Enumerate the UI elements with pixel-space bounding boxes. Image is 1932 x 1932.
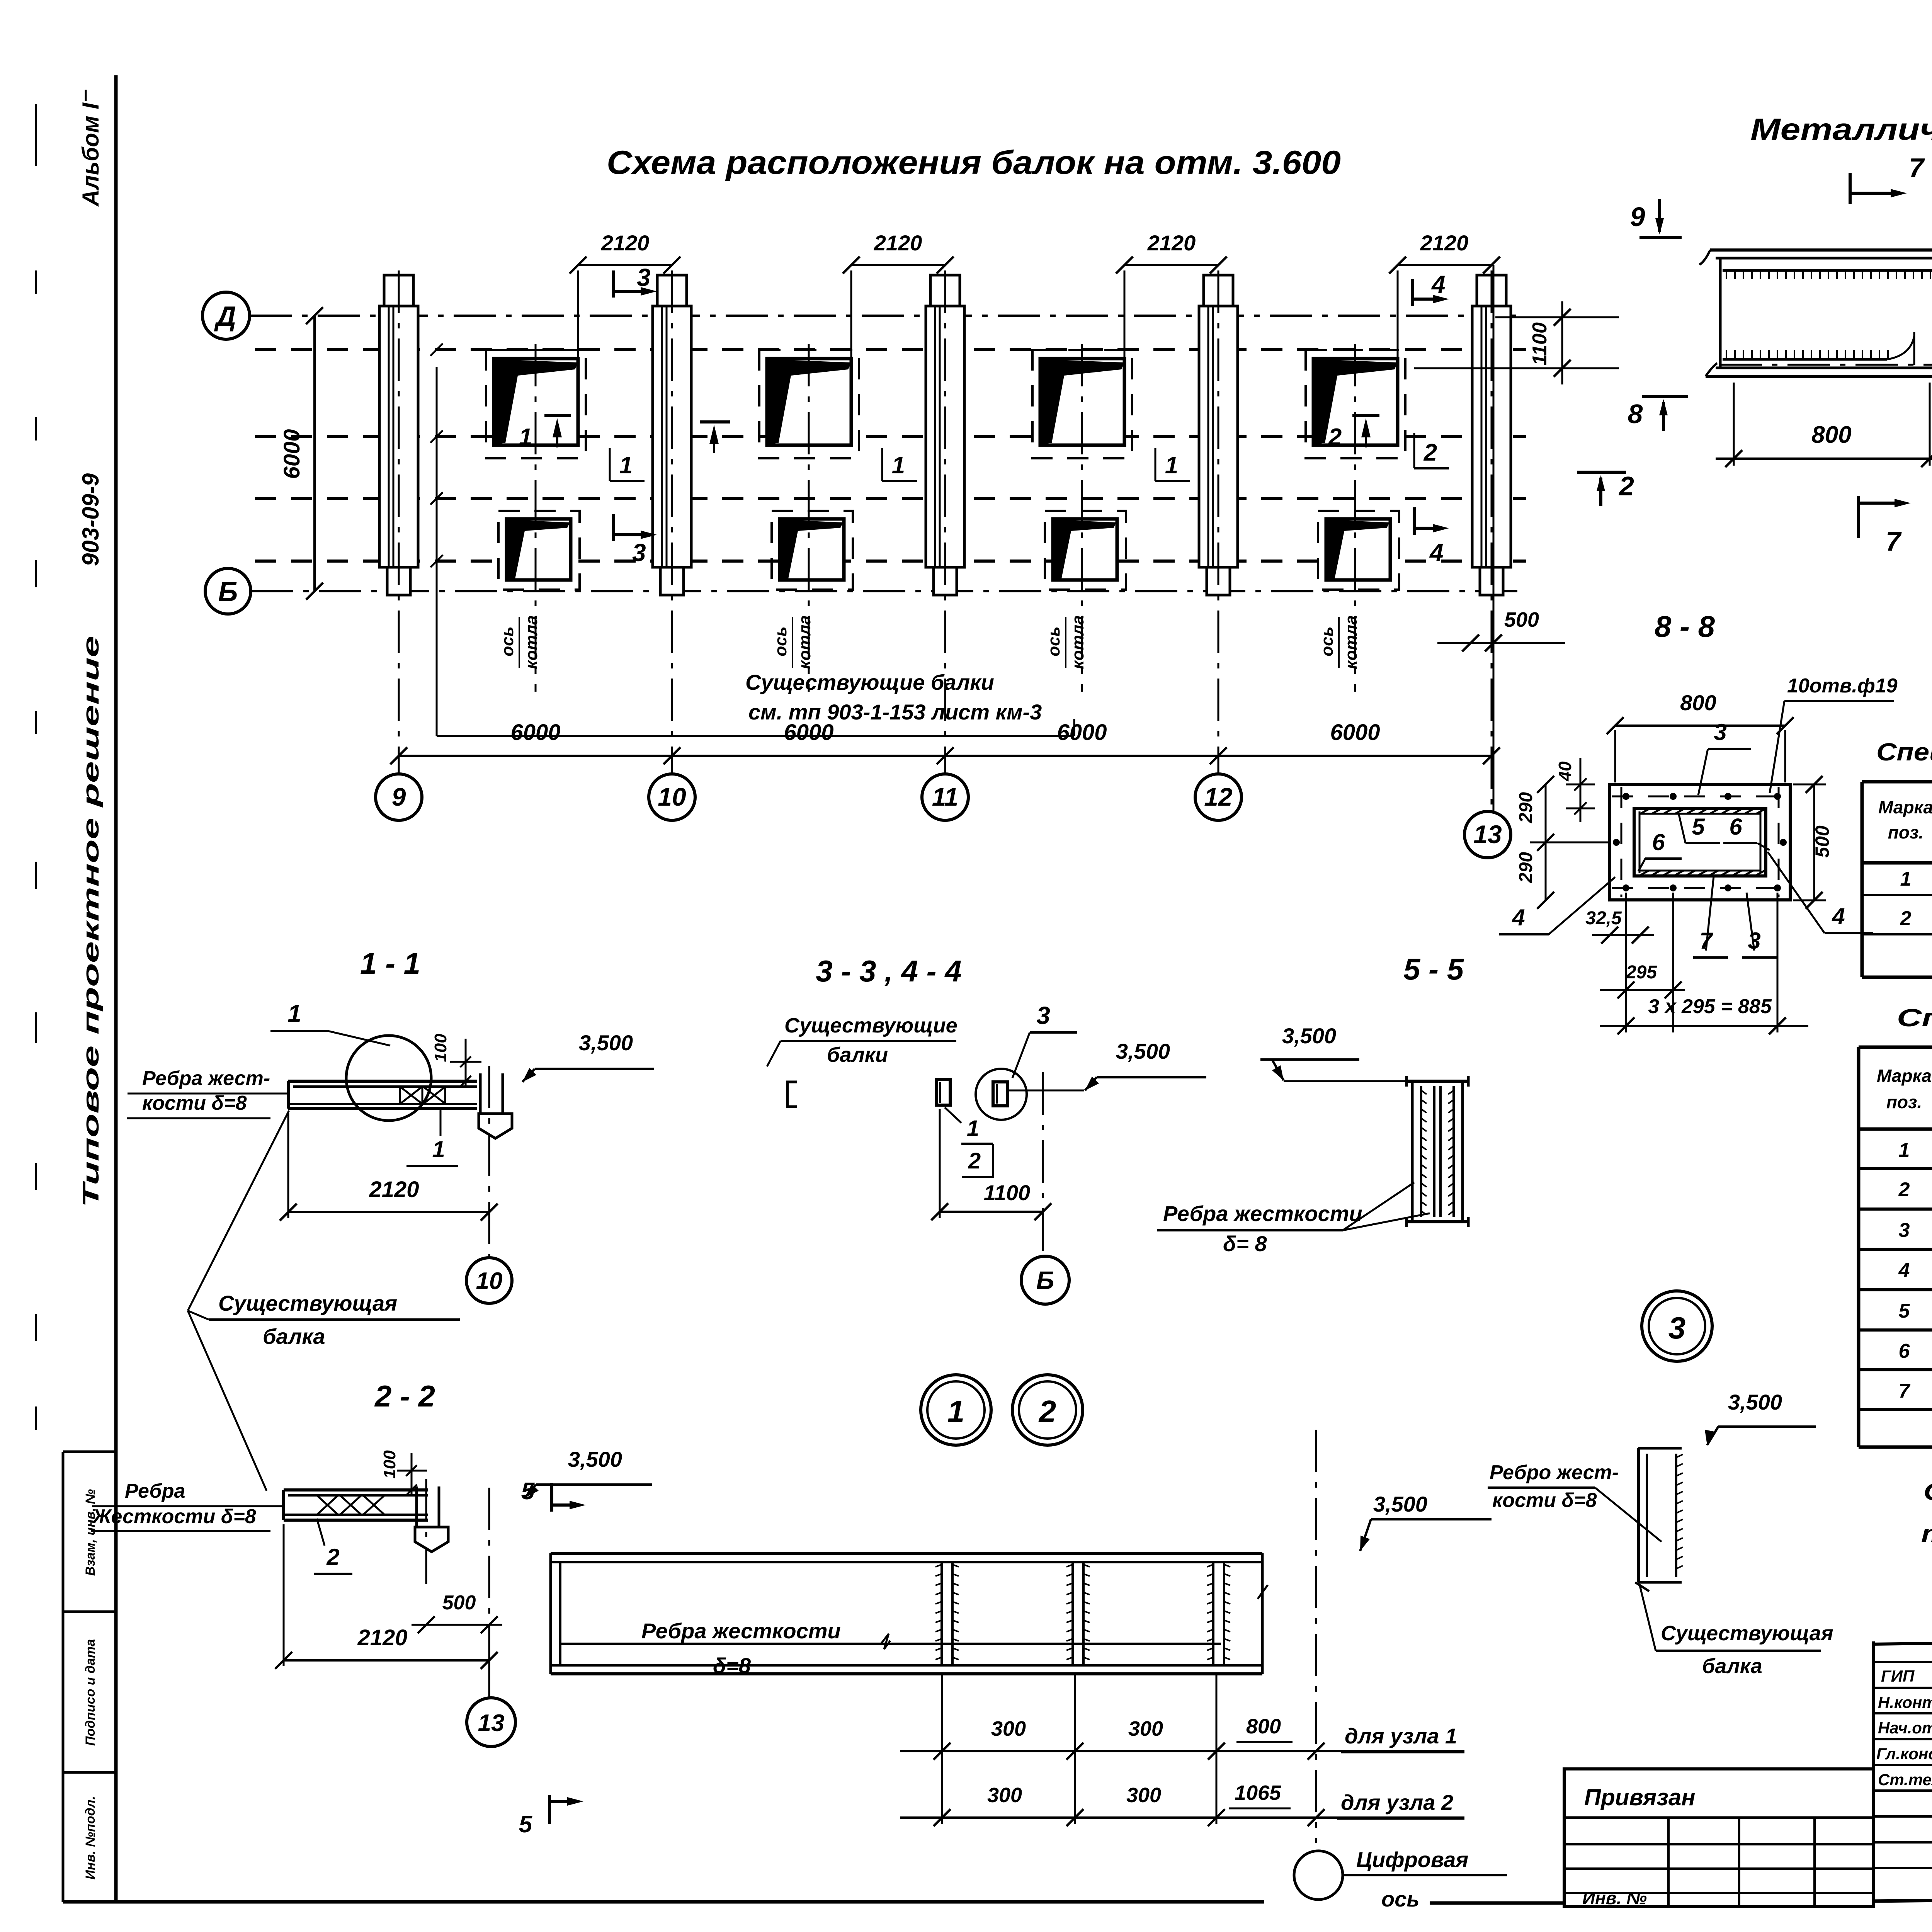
8-8 bolt holes bbox=[1622, 793, 1629, 800]
svg-text:1 - 1: 1 - 1 bbox=[360, 946, 420, 980]
svg-text:Взам, инв. №: Взам, инв. № bbox=[83, 1489, 98, 1576]
svg-text:3: 3 bbox=[637, 264, 651, 291]
axis line B bbox=[251, 590, 1526, 592]
svg-text:Марка: Марка bbox=[1878, 797, 1932, 817]
1-1 detail circle bbox=[346, 1036, 431, 1121]
svg-text:2: 2 bbox=[1038, 1394, 1056, 1429]
svg-text:1: 1 bbox=[519, 424, 532, 451]
rib channel piece bbox=[1638, 1447, 1682, 1450]
longitudinal dashed beam lines bbox=[255, 348, 1526, 351]
svg-text:300: 300 bbox=[1128, 1717, 1163, 1740]
svg-text:Типовое проектное решение: Типовое проектное решение bbox=[78, 636, 104, 1207]
svg-text:1: 1 bbox=[892, 452, 905, 479]
svg-text:3: 3 bbox=[1036, 1002, 1050, 1029]
bay 2 lower opening bbox=[780, 519, 844, 580]
bay 4 upper opening black wedge bbox=[1314, 359, 1398, 444]
8-8 inner frame bbox=[1634, 808, 1766, 876]
svg-text:300: 300 bbox=[987, 1784, 1022, 1807]
svg-text:типа Э-42 по ГОСТ 9467-75: типа Э-42 по ГОСТ 9467-75 bbox=[1921, 1520, 1932, 1547]
section mark 4 lower bbox=[1413, 507, 1416, 535]
svg-text:3,500: 3,500 bbox=[568, 1447, 622, 1471]
svg-text:балка: балка bbox=[1702, 1655, 1762, 1678]
svg-text:500: 500 bbox=[442, 1592, 476, 1614]
svg-text:300: 300 bbox=[1126, 1784, 1161, 1807]
bay 1 upper opening dashed outline bbox=[486, 350, 586, 458]
section mark 3 upper bbox=[612, 270, 615, 298]
metal box hatch ticks top bbox=[1726, 270, 1727, 279]
svg-text:Спецификация к схеме распол: Спецификация к схеме расположения балок … bbox=[1876, 738, 1932, 766]
vertical dimension 6000 between axes bbox=[313, 316, 316, 591]
column bubble 12 bbox=[1195, 774, 1242, 820]
bay 3 upper opening black wedge bbox=[1041, 359, 1124, 444]
svg-text:6: 6 bbox=[1652, 829, 1665, 855]
bay 4 lower opening dashed outline bbox=[1318, 511, 1399, 590]
sheet frame left inner border bbox=[114, 75, 118, 1902]
bay 2 upper opening dashed outline bbox=[759, 350, 859, 458]
svg-text:2120: 2120 bbox=[601, 231, 650, 255]
node beam right axis line bbox=[1315, 1430, 1317, 1843]
axis bubble 10 under 1-1 bbox=[466, 1258, 512, 1303]
bay 1 upper opening bbox=[494, 359, 578, 445]
beam mark T symbol bay4 bbox=[1352, 414, 1379, 417]
section mark 7 top bbox=[1849, 173, 1852, 204]
svg-text:3,500: 3,500 bbox=[1282, 1024, 1336, 1048]
3-3 circled channel bbox=[976, 1069, 1027, 1120]
svg-text:Б: Б bbox=[218, 577, 238, 607]
column 12 axis line bbox=[1218, 270, 1219, 774]
svg-text:Спецификация к металлическо: Спецификация к металлическому коробу bbox=[1897, 1004, 1932, 1032]
svg-text:Альбом I: Альбом I bbox=[78, 102, 104, 207]
metal box hatch ticks bottom bbox=[1726, 350, 1727, 359]
axis line D bbox=[250, 315, 1526, 317]
svg-text:1: 1 bbox=[1165, 452, 1178, 479]
section mark 2 left bbox=[1577, 471, 1626, 474]
svg-text:295: 295 bbox=[1626, 962, 1657, 983]
axis bubble 13 under 2-2 bbox=[467, 1698, 515, 1747]
svg-text:1: 1 bbox=[432, 1136, 445, 1162]
svg-text:кости δ=8: кости δ=8 bbox=[142, 1092, 247, 1114]
svg-text:Ребра жесткости: Ребра жесткости bbox=[641, 1619, 841, 1643]
svg-text:4: 4 bbox=[1429, 539, 1444, 566]
svg-text:6000: 6000 bbox=[510, 720, 560, 745]
column bubble 9 bbox=[376, 774, 422, 820]
section mark 7 bottom bbox=[1857, 496, 1860, 538]
spec table 1 grid bbox=[1861, 782, 1864, 977]
svg-text:котла: котла bbox=[522, 615, 541, 669]
svg-text:3 x 295 = 885: 3 x 295 = 885 bbox=[1648, 995, 1772, 1018]
3-3 axis line bbox=[1042, 1072, 1044, 1256]
svg-text:Гл.конст.: Гл.конст. bbox=[1876, 1745, 1932, 1763]
svg-text:2120: 2120 bbox=[357, 1625, 407, 1650]
svg-text:кости δ=8: кости δ=8 bbox=[1492, 1489, 1597, 1512]
svg-text:Ст.техн.: Ст.техн. bbox=[1878, 1770, 1932, 1789]
spec table 2 grid bbox=[1857, 1047, 1861, 1447]
sheet frame bottom border bbox=[63, 1900, 1264, 1904]
svg-text:Инв. №: Инв. № bbox=[1582, 1888, 1647, 1908]
svg-text:Жесткости δ=8: Жесткости δ=8 bbox=[92, 1505, 256, 1528]
bottom dimension row 6000 x4 bbox=[399, 755, 1492, 757]
svg-text:5: 5 bbox=[519, 1811, 533, 1838]
svg-text:9: 9 bbox=[1630, 202, 1645, 232]
bay 2 lower opening black wedge bbox=[781, 520, 843, 580]
svg-text:ГИП: ГИП bbox=[1881, 1667, 1915, 1685]
svg-text:котла: котла bbox=[795, 615, 814, 669]
3-3 dimension 1100 bbox=[940, 1211, 1043, 1213]
node beam break mark right bbox=[1258, 1585, 1268, 1599]
svg-text:Ребра: Ребра bbox=[125, 1480, 185, 1502]
svg-text:2: 2 bbox=[1898, 1179, 1910, 1201]
1-1 dimension 2120 bbox=[288, 1211, 489, 1213]
svg-text:ось: ось bbox=[771, 626, 790, 656]
bay 3 dimension 2120 bbox=[1124, 264, 1218, 266]
bay 3 lower opening bbox=[1053, 519, 1117, 580]
title block bottom line bbox=[1873, 1893, 1932, 1901]
svg-text:6000: 6000 bbox=[1057, 720, 1107, 745]
svg-text:ось: ось bbox=[1381, 1887, 1420, 1911]
metal box bottom flange bbox=[1723, 358, 1887, 361]
svg-text:10: 10 bbox=[658, 782, 686, 811]
svg-text:Подписо и дата: Подписо и дата bbox=[83, 1639, 98, 1746]
svg-text:2120: 2120 bbox=[369, 1177, 419, 1202]
bay 2 lower opening dashed outline bbox=[772, 511, 853, 590]
svg-text:Существующие: Существующие bbox=[784, 1014, 957, 1037]
svg-text:котла: котла bbox=[1342, 615, 1361, 669]
svg-text:Цифровая: Цифровая bbox=[1356, 1847, 1468, 1872]
svg-text:3,500: 3,500 bbox=[579, 1031, 633, 1055]
svg-text:6: 6 bbox=[1729, 814, 1742, 840]
svg-text:32,5: 32,5 bbox=[1585, 908, 1622, 929]
svg-text:Нач.отд.: Нач.отд. bbox=[1878, 1719, 1932, 1737]
svg-text:4: 4 bbox=[1431, 270, 1446, 298]
svg-text:3,500: 3,500 bbox=[1373, 1492, 1427, 1516]
svg-text:6000: 6000 bbox=[784, 720, 833, 745]
column 10 existing beam body bbox=[657, 275, 687, 306]
svg-text:Существующая: Существующая bbox=[1661, 1622, 1833, 1645]
svg-text:4: 4 bbox=[1512, 905, 1525, 930]
title block top boundary bbox=[1873, 1634, 1932, 1644]
bay 1 lower opening bbox=[507, 519, 571, 580]
svg-text:1: 1 bbox=[1900, 868, 1912, 890]
svg-text:13: 13 bbox=[478, 1710, 505, 1736]
section mark 8 bottom-left bbox=[1642, 395, 1688, 398]
bay 1 upper opening black wedge bbox=[495, 359, 578, 444]
1-1 existing column bbox=[479, 1073, 482, 1114]
svg-text:ось: ось bbox=[498, 626, 517, 656]
section mark 3 lower bbox=[612, 514, 615, 541]
svg-text:7: 7 bbox=[1886, 526, 1902, 556]
column bubble 11 bbox=[922, 774, 968, 820]
svg-text:100: 100 bbox=[380, 1450, 399, 1479]
1-1 beam stiffener crosses bbox=[400, 1087, 422, 1104]
svg-text:2: 2 bbox=[968, 1148, 981, 1173]
svg-text:100: 100 bbox=[431, 1034, 450, 1062]
bay 1 lower opening black wedge bbox=[507, 520, 570, 580]
svg-text:ось: ось bbox=[1318, 626, 1337, 656]
axis bubble B under 3-3 bbox=[1021, 1256, 1069, 1304]
svg-text:5: 5 bbox=[1899, 1300, 1910, 1322]
2-2 column axis line bbox=[425, 1479, 427, 1584]
svg-text:поз.: поз. bbox=[1888, 822, 1923, 842]
svg-text:290: 290 bbox=[1516, 852, 1536, 883]
2-2 existing column bbox=[415, 1486, 418, 1527]
svg-text:Сварку производить элект: Сварку производить электродами bbox=[1923, 1479, 1932, 1505]
metal box side webs bbox=[1719, 258, 1722, 367]
detail bubble 2 bbox=[1012, 1375, 1083, 1445]
svg-text:2120: 2120 bbox=[1420, 231, 1469, 255]
svg-text:2: 2 bbox=[326, 1544, 339, 1570]
section mark 4 upper bbox=[1411, 279, 1414, 306]
axis bubble B bbox=[205, 568, 251, 614]
svg-text:ось: ось bbox=[1044, 626, 1063, 656]
bay 4 upper opening bbox=[1313, 359, 1398, 445]
digital axis circle bbox=[1294, 1851, 1343, 1900]
metal box dimension 800 bbox=[1716, 457, 1932, 460]
svg-text:4: 4 bbox=[1898, 1259, 1910, 1282]
svg-text:балки: балки bbox=[827, 1043, 888, 1066]
svg-text:3: 3 bbox=[1899, 1219, 1910, 1242]
svg-text:13: 13 bbox=[1473, 820, 1502, 849]
bay 1 dimension 2120 bbox=[578, 264, 672, 266]
node beam bottom flange bbox=[551, 1664, 1262, 1667]
svg-text:поз.: поз. bbox=[1886, 1092, 1922, 1112]
svg-text:Существующие балки: Существующие балки bbox=[745, 670, 994, 694]
bay 4 lower opening bbox=[1326, 519, 1390, 580]
svg-text:6: 6 bbox=[1899, 1340, 1910, 1362]
svg-text:4: 4 bbox=[1832, 903, 1845, 929]
column 12 existing beam body bbox=[1204, 275, 1233, 306]
3-3 small channel bracket symbol bbox=[787, 1082, 797, 1107]
svg-text:3: 3 bbox=[632, 539, 646, 566]
svg-text:7: 7 bbox=[1909, 153, 1925, 183]
svg-text:6000: 6000 bbox=[1330, 720, 1380, 745]
svg-text:Ребра жесткости: Ребра жесткости bbox=[1163, 1201, 1362, 1226]
8-8 outer frame bbox=[1610, 784, 1790, 900]
svg-text:балка: балка bbox=[263, 1324, 325, 1349]
bay 3 lower opening black wedge bbox=[1054, 520, 1116, 580]
detail bubble 3 bbox=[1642, 1291, 1712, 1361]
detail bubble 1 bbox=[921, 1375, 991, 1445]
sheet left outer edge marks bbox=[35, 104, 37, 166]
column 10 axis line bbox=[671, 270, 673, 774]
2-2 dimension 2120 bbox=[284, 1659, 489, 1662]
left stamp column table bbox=[62, 1452, 65, 1902]
svg-text:10: 10 bbox=[476, 1268, 503, 1294]
node dim row 2 bbox=[900, 1816, 1464, 1819]
svg-text:3,500: 3,500 bbox=[1728, 1390, 1782, 1414]
svg-text:2120: 2120 bbox=[1147, 231, 1196, 255]
svg-text:800: 800 bbox=[1680, 690, 1716, 715]
svg-text:8: 8 bbox=[1628, 399, 1643, 429]
2-2 beam channel bbox=[284, 1488, 428, 1492]
svg-text:1: 1 bbox=[947, 1394, 965, 1429]
svg-text:12: 12 bbox=[1204, 782, 1233, 811]
svg-text:300: 300 bbox=[991, 1717, 1026, 1740]
svg-text:2: 2 bbox=[1618, 471, 1634, 501]
metal box corner patch right bbox=[1887, 332, 1914, 359]
svg-text:903-09-9: 903-09-9 bbox=[78, 473, 104, 566]
bay 1 boiler axis line bbox=[535, 344, 537, 692]
3-3 channel piece bbox=[936, 1080, 950, 1105]
svg-text:δ= 8: δ= 8 bbox=[1223, 1231, 1267, 1256]
8-8 hatched inner strips bbox=[1640, 809, 1649, 814]
bay 2 upper opening bbox=[767, 359, 851, 445]
column 9 existing beam body bbox=[384, 275, 413, 306]
beam mark T symbol bay1 bbox=[544, 414, 571, 417]
8-8 dimension 500 right bbox=[1813, 784, 1815, 900]
svg-text:800: 800 bbox=[1246, 1715, 1281, 1738]
svg-text:δ=8: δ=8 bbox=[713, 1653, 751, 1678]
bay 3 upper opening dashed outline bbox=[1032, 350, 1132, 458]
svg-text:2120: 2120 bbox=[874, 231, 922, 255]
8-8 dimension 325 bbox=[1592, 934, 1654, 936]
svg-text:Существующая: Существующая bbox=[218, 1291, 397, 1315]
bay 3 lower opening dashed outline bbox=[1045, 511, 1126, 590]
privyazan table frame bbox=[1564, 1769, 1873, 1906]
svg-text:Д: Д bbox=[214, 301, 236, 332]
node beam top flange bbox=[551, 1552, 1262, 1555]
svg-text:1100: 1100 bbox=[984, 1180, 1030, 1205]
svg-text:Инв. №подл.: Инв. №подл. bbox=[83, 1796, 98, 1880]
column 9 axis line bbox=[398, 270, 400, 774]
8-8 dimension 3x295=885 bbox=[1600, 1025, 1808, 1027]
column bubble 10 bbox=[649, 774, 695, 820]
bay 2 upper opening black wedge bbox=[768, 359, 851, 444]
svg-text:Н.контр.: Н.контр. bbox=[1878, 1693, 1932, 1711]
svg-text:290: 290 bbox=[1516, 792, 1536, 823]
svg-text:2 - 2: 2 - 2 bbox=[374, 1379, 435, 1413]
node beam stiffeners bbox=[940, 1562, 943, 1665]
leader riser for existing beams note bbox=[436, 367, 438, 736]
svg-text:Привязан: Привязан bbox=[1584, 1784, 1695, 1810]
svg-text:7: 7 bbox=[1899, 1380, 1911, 1402]
svg-text:2: 2 bbox=[1900, 907, 1912, 930]
svg-text:500: 500 bbox=[1504, 608, 1539, 631]
svg-text:10отв.ф19: 10отв.ф19 bbox=[1787, 675, 1898, 697]
1-1 column axis line bbox=[488, 1066, 490, 1257]
8-8 dashed lines in bands bbox=[1612, 796, 1788, 798]
bay 4 dimension 2120 bbox=[1398, 264, 1492, 266]
svg-text:5: 5 bbox=[521, 1478, 535, 1505]
metal box hidden centre dash line bbox=[1719, 364, 1932, 366]
svg-text:1: 1 bbox=[287, 1000, 301, 1027]
column 11 axis line bbox=[944, 270, 946, 774]
svg-text:для узла 1: для узла 1 bbox=[1345, 1724, 1457, 1748]
bay 3 upper opening bbox=[1040, 359, 1124, 445]
svg-text:5 - 5: 5 - 5 bbox=[1403, 952, 1464, 986]
bay 4 lower opening black wedge bbox=[1327, 520, 1389, 580]
svg-text:3: 3 bbox=[1668, 1311, 1686, 1345]
column 13 existing beam body bbox=[1477, 275, 1506, 306]
node beam mid line bbox=[560, 1643, 1221, 1645]
existing beam note leaders bbox=[188, 1111, 289, 1311]
metal box elevation top flange bbox=[1710, 248, 1932, 252]
svg-text:1: 1 bbox=[1899, 1139, 1910, 1162]
5-5 double channel section bbox=[1406, 1080, 1468, 1083]
svg-text:500: 500 bbox=[1811, 825, 1833, 858]
svg-text:9: 9 bbox=[392, 782, 406, 811]
leader bracket line for existing beams note bbox=[437, 735, 1074, 737]
8-8 dimension 295 bbox=[1600, 989, 1685, 991]
column 13 extension line to bubble bbox=[1493, 265, 1495, 811]
svg-text:11: 11 bbox=[932, 782, 959, 811]
svg-text:1100: 1100 bbox=[1529, 322, 1551, 366]
svg-text:1: 1 bbox=[967, 1116, 979, 1141]
bay 4 upper opening dashed outline bbox=[1306, 350, 1405, 458]
svg-text:2: 2 bbox=[1328, 424, 1342, 451]
bay 4 boiler axis line bbox=[1354, 344, 1356, 692]
node beam stiffener extension lines bbox=[941, 1673, 943, 1824]
svg-text:40: 40 bbox=[1555, 761, 1575, 782]
svg-text:Ребро жест-: Ребро жест- bbox=[1490, 1461, 1619, 1484]
bay 3 boiler axis line bbox=[1081, 344, 1083, 692]
svg-text:2: 2 bbox=[1423, 439, 1437, 466]
8-8 dimensions 290 290 bbox=[1545, 784, 1547, 900]
bay 2 dimension 2120 bbox=[851, 264, 945, 266]
plan dimension 500 at column 13 bbox=[1437, 642, 1565, 644]
svg-text:3 - 3 , 4 - 4: 3 - 3 , 4 - 4 bbox=[816, 954, 961, 988]
8-8 dimension 800 top bbox=[1615, 724, 1785, 727]
svg-text:3,500: 3,500 bbox=[1116, 1039, 1170, 1063]
1-1 beam channel bbox=[288, 1080, 477, 1083]
svg-text:Б: Б bbox=[1036, 1266, 1054, 1294]
svg-text:1065: 1065 bbox=[1235, 1781, 1281, 1804]
axis bubble D bbox=[202, 292, 250, 339]
svg-text:Металлический короб: Металлический короб bbox=[1750, 112, 1932, 146]
column bubble 13 bbox=[1464, 811, 1511, 858]
svg-text:Схема расположения балок на: Схема расположения балок на отм. 3.600 bbox=[607, 144, 1341, 181]
svg-text:для узла 2: для узла 2 bbox=[1341, 1790, 1453, 1815]
svg-text:8 - 8: 8 - 8 bbox=[1655, 609, 1715, 643]
svg-text:3: 3 bbox=[1714, 719, 1726, 745]
svg-text:1: 1 bbox=[619, 452, 633, 479]
svg-text:Ребра жест-: Ребра жест- bbox=[142, 1067, 270, 1090]
plan dimension 1100 at right end bbox=[1495, 316, 1619, 318]
title block names table grid bbox=[1872, 1641, 1875, 1898]
bay 2 boiler axis line bbox=[808, 344, 810, 692]
column 11 existing beam body bbox=[930, 275, 960, 306]
node dim row 1 bbox=[900, 1750, 1464, 1752]
svg-text:Марка: Марка bbox=[1877, 1066, 1932, 1086]
beam mark T symbol bay2 bbox=[700, 420, 730, 423]
bay 1 lower opening dashed outline bbox=[498, 511, 580, 590]
node beam end lines bbox=[549, 1553, 552, 1674]
column 13 axis line bbox=[1491, 270, 1493, 811]
2-2 dimension 500 bbox=[412, 1624, 502, 1626]
svg-text:5: 5 bbox=[1692, 814, 1705, 840]
svg-text:котла: котла bbox=[1068, 615, 1087, 669]
svg-text:800: 800 bbox=[1811, 422, 1851, 448]
